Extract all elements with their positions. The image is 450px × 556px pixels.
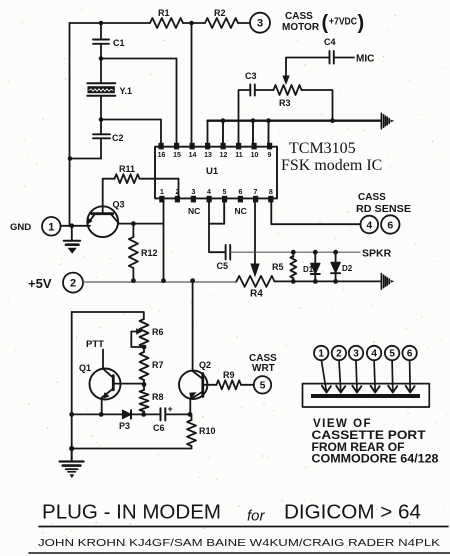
wire left vertical bus (top corner down to GND row) [69,23,71,226]
svg-text:1: 1 [318,349,324,360]
potentiometer R3 [274,85,302,95]
ground symbol bottom left [60,449,84,479]
svg-text:+: + [168,404,173,414]
resistor R12 [129,224,158,281]
svg-text:12: 12 [220,152,228,159]
svg-text:C5: C5 [217,261,229,271]
transistor Q2 [179,360,211,414]
node junction top-left of C1 [99,21,104,26]
wire Q3 collector to pin1 drop [119,223,164,225]
resistor R1 [150,18,183,28]
wire R4 right to ground [275,280,381,282]
node junction emitter/R12 [131,221,136,226]
node pin12 [221,118,226,123]
node junction Q1 collector/R7/R8 [142,382,147,387]
ground (right-pointing) top [381,113,394,129]
ground (right-pointing) lower [381,274,394,290]
node junction Q2 emitter/R10 [188,412,193,417]
svg-text:R7: R7 [152,360,164,370]
svg-text:5: 5 [389,349,395,360]
resistor R2 [205,18,238,28]
svg-text:3: 3 [192,189,196,196]
node junction Q1 emitter [99,412,104,417]
bottom border line [29,552,450,554]
node pin9 [266,118,271,123]
wire R3 right end down to ground bus [302,90,333,121]
ground symbol under GND node [64,226,80,254]
wire C4 to MIC [334,57,354,59]
svg-text:WRT: WRT [252,363,275,374]
svg-text:8: 8 [269,189,273,196]
cassette port arrows [321,360,414,392]
connector pin 3 (cassette port) [250,13,270,33]
connector pin 6 (sense) [381,215,399,233]
wire pin 1 drop to +5V rail [163,202,165,281]
svg-text:4: 4 [371,349,377,360]
node junction R1/R2 to pin14 [189,21,194,26]
svg-text:13: 13 [204,152,212,159]
svg-text:JOHN KROHN KJ4GF/SAM BAINE W4K: JOHN KROHN KJ4GF/SAM BAINE W4KUM/CRAIG R… [38,537,440,549]
node junction on left bus [68,156,73,161]
svg-text:Y.1: Y.1 [120,86,133,96]
diode P3 [119,410,131,431]
connector pin 2 (+5V) [63,273,83,293]
wire Q1 collector to R7/R8 junction [113,383,144,385]
svg-text:Q1: Q1 [79,363,91,373]
wire ground bus over pins 13-9 [208,119,381,121]
wire C6 to Q2 emitter node [165,413,191,415]
capacitor C1 [93,23,125,59]
svg-text:R11: R11 [119,164,135,174]
svg-text:C2: C2 [112,133,124,143]
svg-text:DIGICOM > 64: DIGICOM > 64 [284,502,421,524]
svg-text:Q3: Q3 [113,200,125,210]
svg-text:1: 1 [48,221,54,233]
cassette port slot bar [311,394,420,398]
svg-text:5: 5 [223,189,227,196]
svg-text:6: 6 [407,349,413,360]
node junction pin1/+5V [161,278,166,283]
crystal Y1 [87,59,132,120]
svg-text:R5: R5 [272,262,284,272]
svg-text:9: 9 [268,152,272,159]
svg-text:RD SENSE: RD SENSE [356,204,411,215]
node pin10 [251,118,256,123]
transistor Q3 [87,200,125,238]
svg-text:SPKR: SPKR [362,248,392,260]
svg-text:R3: R3 [279,98,291,108]
node junction D2 top [333,250,338,255]
capacitor C3 [245,71,257,96]
svg-text:VIEW OF: VIEW OF [313,418,372,430]
svg-text:P3: P3 [119,421,130,431]
node junction GND/left bus [69,223,74,228]
wire top rail from left corner to R1 [70,22,151,24]
resistor R9 [217,380,242,389]
cassette port connector circles 1-6 [314,346,417,360]
wire C1-Y1 node to pin 15 [101,59,177,144]
resistor R5 [272,252,296,281]
svg-text:D2: D2 [342,264,353,273]
pin numbers bottom row [160,189,273,196]
connector pin 4 (cass rd) [361,216,379,234]
capacitor C2 [93,120,124,159]
wire C4 left to R3 wiper [286,58,330,77]
wire P3 to C6 [131,413,161,415]
pin numbers top row [158,152,272,159]
wire bottom rail of subcircuit [72,448,192,450]
pin pads bottom row (1..8) [159,196,273,203]
node junction Y1/C2 [99,117,104,122]
svg-text:3: 3 [353,349,359,360]
node junction left bus/rail [69,412,74,417]
wire pin12 drop [222,121,224,144]
node junction bottom rail/left bus [69,446,74,451]
cassette port circle numbers [318,349,412,360]
svg-text:16: 16 [158,152,166,159]
diode D1 [303,252,320,281]
svg-text:): ) [358,12,365,34]
wire +5V rail [83,281,237,283]
svg-text:10: 10 [251,152,259,159]
svg-text:CASS: CASS [285,11,313,22]
node junction C1/Y1 [99,56,104,61]
resistor R11 [115,174,140,183]
wire pin13 drop [207,121,209,144]
svg-text:TCM3105: TCM3105 [289,140,356,157]
R4 wiper arrow [250,264,259,278]
svg-text:for: for [247,508,266,525]
svg-text:NC: NC [235,206,247,216]
capacitor C6 [153,404,173,433]
svg-text:7: 7 [254,189,258,196]
svg-text:4: 4 [207,189,211,196]
svg-text:11: 11 [235,152,243,159]
pin pads top row (16..9) [159,143,273,150]
svg-text:U1: U1 [206,166,219,177]
svg-text:MOTOR: MOTOR [282,22,320,33]
label (+7VDC) [322,12,365,34]
wire emitter rail with P3/C6 [72,413,123,415]
svg-text:+7VDC: +7VDC [329,16,357,28]
wire pin 7 drop to R4 wiper [254,202,256,265]
connector pin 5 (cass wrt) [254,376,271,393]
svg-text:C1: C1 [113,38,125,48]
node junction R8 bottom/rail [141,412,146,417]
resistor R8 [140,384,164,414]
wire pins 4+5 tie [209,202,224,224]
svg-text:4: 4 [366,219,372,231]
wire R1 to R2 [183,22,205,24]
svg-text:6: 6 [239,189,243,196]
svg-text:2: 2 [336,349,342,360]
wire R11 to pin 2 [140,179,179,196]
potentiometer R4 [237,276,275,287]
node junction R5 bottom [291,279,296,284]
wire R2 to connector 3 [238,22,250,24]
op-amp U1 body (TCM3105 FSK modem IC) [155,147,277,199]
node junction R6/R7 [142,345,147,350]
wire C5 to SPKR [230,251,360,253]
svg-text:6: 6 [387,219,393,231]
cassette port body [303,384,430,407]
wire pin10 drop [252,121,254,144]
node junction D1 top [313,250,318,255]
wire pin14 drop [191,23,193,144]
wire Y1-C2 node to pin 16 [101,120,161,144]
node junction R3/ground bus [330,118,335,123]
svg-text:C6: C6 [153,423,165,433]
connector pin 1 (GND) [42,217,61,236]
svg-text:C3: C3 [245,71,257,81]
svg-text:PTT: PTT [86,339,104,350]
svg-text:R12: R12 [141,248,158,258]
svg-text:5: 5 [260,380,266,392]
wire pin9 drop [268,121,270,144]
wire Q2 collector from +5V rail [192,281,194,371]
wire Q2 base to R9 [203,384,217,386]
wire C3 to R3 [255,89,274,91]
svg-text:CASS: CASS [358,192,386,203]
svg-text:PLUG - IN MODEM: PLUG - IN MODEM [42,502,221,524]
transistor Q1 [79,363,121,414]
svg-text:R1: R1 [158,8,170,18]
svg-text:1: 1 [160,189,164,196]
svg-text:Q2: Q2 [199,360,211,370]
wire Q3 collector up to R11 [103,179,115,214]
svg-text:COMMODORE 64/128: COMMODORE 64/128 [312,454,440,466]
capacitor C5 [217,245,231,271]
svg-text:2: 2 [70,278,76,290]
svg-text:14: 14 [189,152,197,159]
capacitor C4 [324,37,336,64]
node junction R12/+5V [131,278,136,283]
svg-text:(: ( [322,12,329,34]
diode D2 [331,252,353,281]
svg-text:3: 3 [257,18,263,30]
resistor R6 (trimmer) [131,319,163,347]
node junction D2 bottom [333,279,338,284]
svg-text:GND: GND [10,222,31,233]
wire GND connector to Q3 base and pin1 drop [61,225,90,227]
svg-text:R2: R2 [214,8,226,18]
svg-text:15: 15 [173,152,181,159]
wire C2 bottom to left bus [70,158,101,160]
wire R9 to connector 5 [241,384,254,386]
wire C3 left to pin 11 drop [239,90,251,144]
node junction Q2 collector/+5V [190,278,195,283]
resistor R7 [140,347,164,384]
R3 wiper arrow [282,76,289,86]
wire left vertical of subcircuit [71,312,73,461]
svg-text:R6: R6 [152,327,164,337]
svg-text:FROM REAR OF: FROM REAR OF [312,442,405,454]
svg-text:R4: R4 [250,289,263,300]
svg-text:C4: C4 [324,37,336,47]
wire loop top left (subcircuit) [72,312,144,319]
svg-text:D1: D1 [303,265,314,274]
svg-text:R9: R9 [223,370,235,380]
svg-text:+5V: +5V [28,276,52,291]
svg-text:MIC: MIC [356,54,374,65]
title underline [39,526,448,528]
svg-text:NC: NC [188,206,200,216]
node junction R5 top [291,250,296,255]
svg-text:R10: R10 [199,426,216,436]
svg-text:CASSETTE PORT: CASSETTE PORT [312,430,426,442]
svg-text:R8: R8 [152,392,164,402]
wire pin 4 drop to C5 [209,202,226,252]
node junction D1 bottom [313,279,318,284]
wire PTT to Q1 base [102,350,104,369]
resistor R10 [187,414,216,448]
wire pin 8 to cass rd sense [271,202,360,224]
svg-text:FSK modem IC: FSK modem IC [281,157,382,174]
